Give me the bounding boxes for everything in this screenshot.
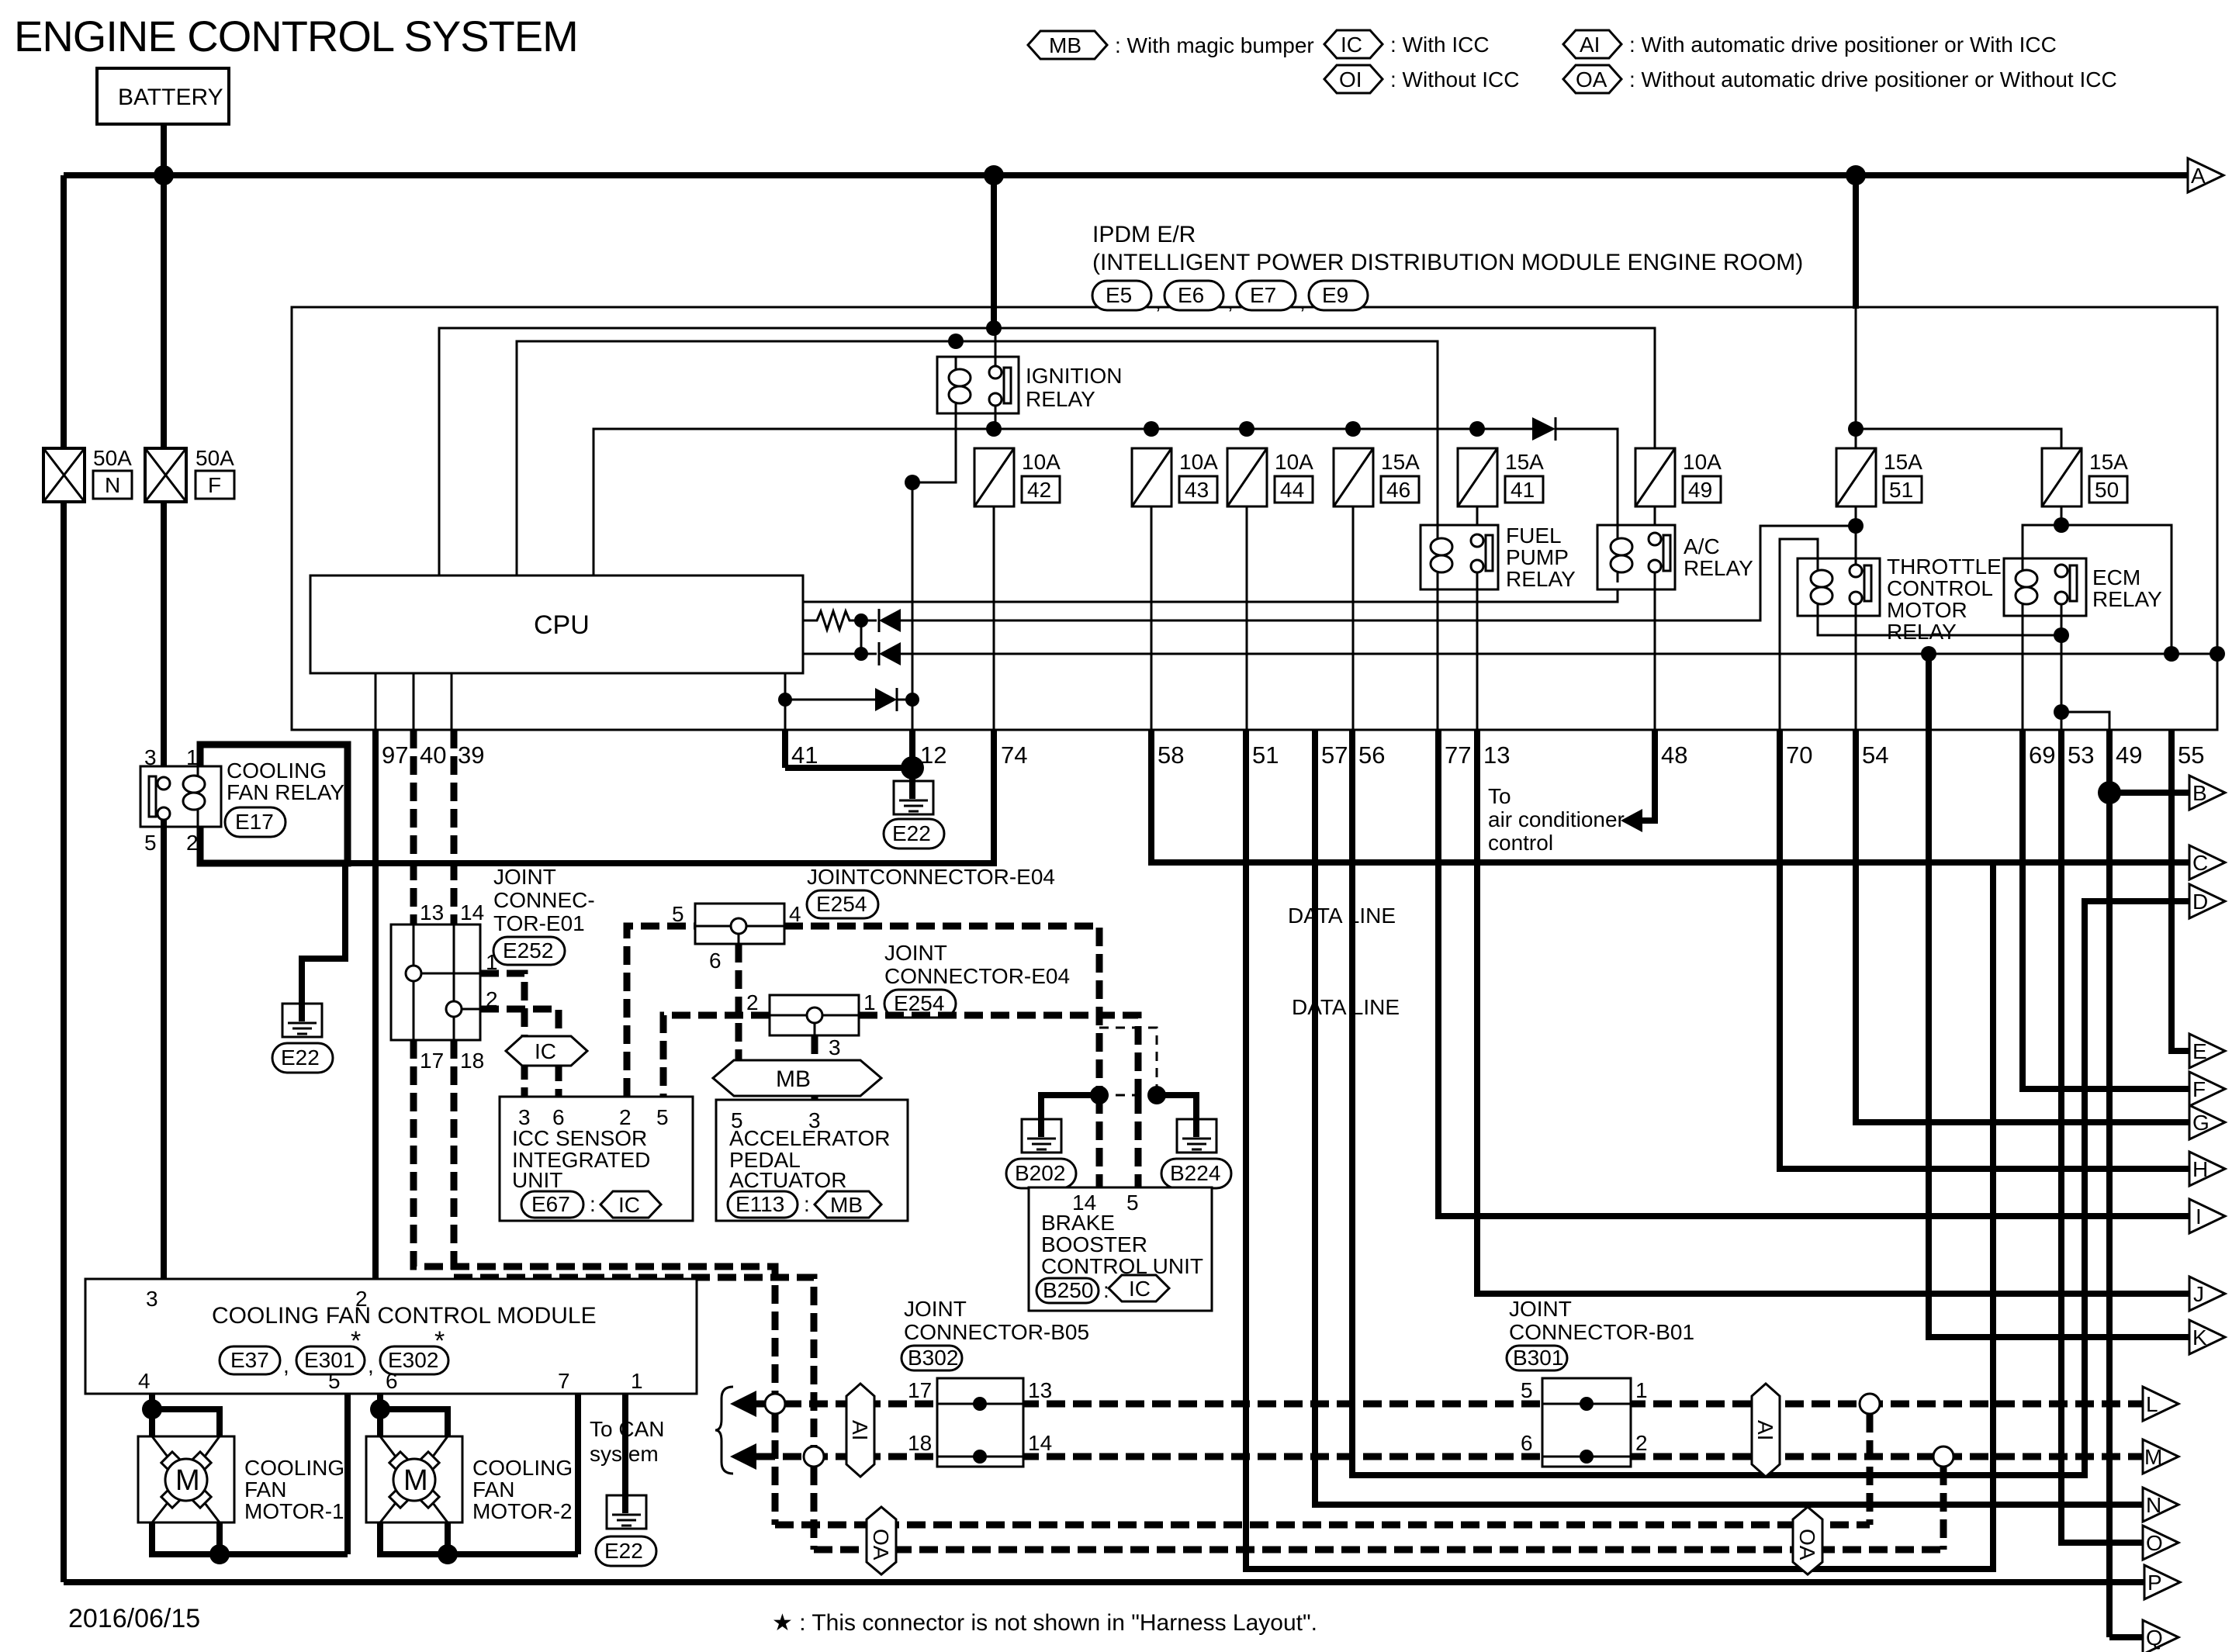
svg-text:O: O bbox=[2146, 1531, 2163, 1555]
diode fuse-rail bbox=[1532, 417, 1556, 441]
joint connector B301 bbox=[1542, 1378, 1631, 1467]
joint connector E252 bbox=[391, 924, 480, 1040]
svg-text:6: 6 bbox=[1521, 1431, 1533, 1455]
wire E17 pin1 stub bbox=[197, 745, 199, 766]
svg-text:,: , bbox=[283, 1353, 289, 1377]
svg-text:C: C bbox=[2192, 851, 2208, 875]
wire pin69 to F arrow bbox=[2023, 730, 2189, 1089]
arrow J bbox=[2189, 1277, 2225, 1311]
ground B224 bbox=[1161, 1119, 1231, 1188]
svg-text:AI: AI bbox=[1580, 33, 1600, 57]
svg-text:41: 41 bbox=[1511, 478, 1535, 502]
hexagon IC option bbox=[506, 1036, 587, 1066]
svg-text:56: 56 bbox=[1358, 741, 1385, 769]
ignition relay bbox=[937, 328, 1122, 413]
svg-text:IC: IC bbox=[1129, 1277, 1151, 1301]
svg-text:,: , bbox=[1227, 289, 1234, 313]
wire ground column bbox=[912, 482, 914, 700]
node CAN L splice right bbox=[1860, 1394, 1880, 1414]
svg-text:46: 46 bbox=[1386, 478, 1410, 502]
svg-text:(INTELLIGENT POWER DISTRIBUTIO: (INTELLIGENT POWER DISTRIBUTION MODULE E… bbox=[1092, 250, 1803, 275]
ground E22 under pin12 bbox=[884, 781, 944, 848]
wire E252 pin17 CAN down bbox=[414, 1040, 775, 1404]
svg-text:E6: E6 bbox=[1178, 283, 1204, 307]
svg-text:MOTOR-2: MOTOR-2 bbox=[472, 1499, 573, 1523]
wire pin49 column bbox=[2106, 730, 2113, 1637]
svg-text:J: J bbox=[2193, 1282, 2204, 1306]
wire CPU pin41 stub bbox=[784, 673, 787, 730]
wire CPU pin39 stub bbox=[451, 673, 453, 730]
wire fuse supply y553 bbox=[593, 429, 1532, 575]
node CAN M splice right bbox=[1933, 1446, 1954, 1467]
svg-text:OA: OA bbox=[1795, 1529, 1819, 1560]
node ECM contact link bbox=[2054, 627, 2069, 643]
fuel pump relay bbox=[1421, 524, 1576, 591]
node ECM contact to pin49 bbox=[2054, 704, 2069, 720]
svg-text:E7: E7 bbox=[1250, 283, 1276, 307]
wire CAN L drop to OA line bbox=[772, 1414, 779, 1525]
arrow F bbox=[2189, 1072, 2225, 1106]
wire CAN L right drop bbox=[1867, 1414, 1874, 1525]
svg-text:B301: B301 bbox=[1513, 1346, 1563, 1370]
wire CPU line2 to fuse51 node bbox=[901, 526, 1856, 620]
svg-text:40: 40 bbox=[420, 741, 446, 769]
node motor2 return join bbox=[438, 1544, 458, 1564]
connector B302 oval bbox=[901, 1346, 962, 1370]
arrow to CAN lower bbox=[730, 1443, 756, 1470]
wire module pin7 bbox=[575, 1394, 581, 1554]
throttle control motor relay bbox=[1798, 555, 2002, 644]
svg-text:FAN RELAY: FAN RELAY bbox=[227, 780, 344, 804]
connector E254 oval lower bbox=[884, 990, 956, 1018]
svg-text:,: , bbox=[1155, 289, 1161, 313]
svg-text:10A: 10A bbox=[1022, 450, 1061, 474]
arrow to CAN upper bbox=[730, 1391, 756, 1417]
svg-text:E113: E113 bbox=[735, 1192, 784, 1216]
svg-text:49: 49 bbox=[2116, 741, 2142, 769]
diode D3 right-pointing bbox=[875, 688, 897, 711]
svg-text:3: 3 bbox=[808, 1108, 821, 1132]
wire OA line upper bbox=[775, 1522, 1870, 1529]
connector E301 bbox=[296, 1326, 365, 1374]
hexagon OA right bbox=[1793, 1507, 1822, 1574]
wire CPU line3 across to pin55 column bbox=[901, 653, 2217, 655]
wire bottom border to P arrow bbox=[64, 1579, 2144, 1585]
svg-text:N: N bbox=[2146, 1493, 2161, 1517]
svg-text:2016/06/15: 2016/06/15 bbox=[68, 1604, 200, 1633]
svg-text:2: 2 bbox=[746, 990, 759, 1014]
wire pin57 to N arrow bbox=[1315, 730, 2143, 1505]
arrow G bbox=[2189, 1105, 2225, 1139]
wire motor1 returns bbox=[152, 1522, 348, 1554]
svg-text:13: 13 bbox=[420, 900, 444, 924]
wire fuel pump coil to pin77 bbox=[1437, 589, 1439, 730]
svg-text:18: 18 bbox=[460, 1049, 484, 1073]
svg-text::: : bbox=[590, 1192, 596, 1216]
wire CAN M right drop bbox=[1940, 1467, 1947, 1550]
wire motor2 returns bbox=[380, 1522, 578, 1554]
wire ECM contact down bbox=[2061, 604, 2063, 730]
hexagon AI left bbox=[846, 1384, 874, 1477]
wire pin58 to C arrow bbox=[1151, 730, 2189, 862]
svg-text:To CAN: To CAN bbox=[590, 1417, 664, 1441]
hexagon AI right bbox=[1752, 1384, 1780, 1477]
svg-text:ENGINE CONTROL SYSTEM: ENGINE CONTROL SYSTEM bbox=[14, 12, 578, 60]
wire diode to A/C relay coil bbox=[1556, 429, 1618, 535]
cooling fan motor 2 bbox=[366, 1436, 573, 1523]
svg-text:E254: E254 bbox=[816, 892, 867, 916]
wire fuse44 out to pin51 bbox=[1246, 506, 1248, 730]
wire fuse51 out to throttle contact bbox=[1855, 506, 1857, 565]
svg-text:15A: 15A bbox=[2089, 450, 2128, 474]
svg-text:E5: E5 bbox=[1106, 283, 1132, 307]
wire Q feed bbox=[2109, 1634, 2143, 1640]
svg-text:MOTOR: MOTOR bbox=[1887, 598, 1967, 622]
connector E37 bbox=[220, 1346, 280, 1374]
svg-text:E22: E22 bbox=[281, 1045, 320, 1070]
joint connector E04 lower bbox=[770, 995, 859, 1035]
svg-text:E9: E9 bbox=[1322, 283, 1348, 307]
wire battery column through fuse F down to cooling fan relay bbox=[161, 175, 167, 448]
arrow D bbox=[2189, 884, 2225, 918]
svg-text:B224: B224 bbox=[1170, 1161, 1220, 1185]
wire A/C contact to pin48 bbox=[1654, 572, 1656, 730]
svg-text:CPU: CPU bbox=[534, 610, 590, 640]
svg-text:15A: 15A bbox=[1381, 450, 1420, 474]
svg-text:FUEL: FUEL bbox=[1506, 524, 1562, 548]
svg-text:To: To bbox=[1488, 784, 1511, 808]
svg-text:97: 97 bbox=[382, 741, 408, 769]
svg-text:74: 74 bbox=[1001, 741, 1027, 769]
wire B224 option dash bbox=[1099, 1028, 1157, 1095]
svg-text:49: 49 bbox=[1688, 478, 1712, 502]
ground E22 of cooling fan relay bbox=[272, 1004, 333, 1073]
joint connector B302 bbox=[937, 1378, 1023, 1467]
svg-text:50A: 50A bbox=[93, 446, 132, 470]
wire data line to brake pin14 bbox=[1096, 1095, 1103, 1187]
ground E22 of module bbox=[596, 1495, 656, 1566]
svg-text:TOR-E01: TOR-E01 bbox=[493, 911, 585, 935]
svg-text:E22: E22 bbox=[892, 821, 931, 845]
wire B224 ground lead bbox=[1157, 1095, 1196, 1137]
connector E252 oval bbox=[493, 937, 565, 965]
node motor2 feed bbox=[370, 1399, 390, 1419]
wire pin70 to H arrow bbox=[1780, 730, 2189, 1169]
svg-text:E254: E254 bbox=[894, 991, 944, 1015]
fuse N 50A bbox=[43, 446, 132, 502]
svg-text:D: D bbox=[2192, 890, 2208, 914]
svg-text:CONNECTOR-B01: CONNECTOR-B01 bbox=[1509, 1320, 1694, 1344]
wire CPU feed y423 bbox=[439, 328, 1655, 575]
wire fuse42 out to pin74 bbox=[993, 506, 995, 730]
wire module pin5 bbox=[344, 1394, 351, 1554]
wire pin53 to O arrow bbox=[2061, 730, 2143, 1543]
svg-text:10A: 10A bbox=[1179, 450, 1218, 474]
wire motor2 feed branch bbox=[380, 1409, 448, 1436]
fuse 50 15A bbox=[2042, 448, 2128, 506]
label To CAN system bbox=[590, 1417, 664, 1466]
node motor1 feed bbox=[142, 1399, 162, 1419]
svg-text:57: 57 bbox=[1321, 741, 1348, 769]
svg-text:RELAY: RELAY bbox=[1887, 620, 1957, 644]
svg-text:MB: MB bbox=[830, 1193, 863, 1217]
arrow P bbox=[2144, 1565, 2180, 1599]
svg-text:COOLING FAN CONTROL MODULE: COOLING FAN CONTROL MODULE bbox=[212, 1303, 597, 1329]
node fuse46 tap bbox=[1345, 421, 1361, 437]
fuse 44 10A bbox=[1227, 448, 1313, 506]
svg-text:69: 69 bbox=[2029, 741, 2055, 769]
svg-text:5: 5 bbox=[144, 831, 157, 855]
fuse 41 15A bbox=[1458, 448, 1544, 506]
svg-text:system: system bbox=[590, 1442, 659, 1466]
wire module pin4 bbox=[149, 1394, 155, 1436]
brace CAN group bbox=[715, 1387, 733, 1474]
svg-text:JOINT: JOINT bbox=[904, 1297, 967, 1321]
svg-text:,: , bbox=[1299, 289, 1306, 313]
svg-text:13: 13 bbox=[1483, 741, 1510, 769]
wire B feed bbox=[2109, 790, 2189, 796]
svg-text:FAN: FAN bbox=[244, 1477, 286, 1502]
node fuse44 tap bbox=[1239, 421, 1254, 437]
arrow O bbox=[2143, 1526, 2178, 1560]
node fuse51 tap bbox=[1848, 421, 1864, 437]
svg-text:10A: 10A bbox=[1275, 450, 1313, 474]
node fuse41 tap bbox=[1469, 421, 1485, 437]
svg-text:5: 5 bbox=[328, 1369, 341, 1393]
svg-text:17: 17 bbox=[908, 1378, 932, 1402]
wire ECM node to pin49 bbox=[2061, 712, 2109, 730]
svg-text:2: 2 bbox=[1635, 1431, 1648, 1455]
svg-text:RELAY: RELAY bbox=[1506, 567, 1576, 591]
IPDM E/R labels bbox=[1092, 222, 1803, 275]
svg-text:53: 53 bbox=[2068, 741, 2094, 769]
svg-text:PUMP: PUMP bbox=[1506, 545, 1569, 569]
svg-text:3: 3 bbox=[144, 745, 157, 769]
svg-text:15A: 15A bbox=[1884, 450, 1922, 474]
svg-text:B202: B202 bbox=[1015, 1161, 1065, 1185]
svg-text:AI: AI bbox=[1753, 1420, 1777, 1440]
svg-text:CONNECTOR-E04: CONNECTOR-E04 bbox=[884, 964, 1070, 988]
arrow C bbox=[2189, 845, 2225, 880]
svg-text:DATA LINE: DATA LINE bbox=[1288, 904, 1396, 928]
resistor R bbox=[812, 611, 855, 630]
wire E17 pin5 to module pin3 bbox=[161, 820, 167, 1279]
battery bbox=[97, 68, 229, 124]
wire CAN M drop to OA line bbox=[811, 1467, 818, 1550]
svg-text:BOOSTER: BOOSTER bbox=[1041, 1232, 1147, 1256]
ECM relay bbox=[2004, 558, 2162, 616]
label E252 title bbox=[493, 865, 595, 935]
svg-text:42: 42 bbox=[1027, 478, 1051, 502]
node diode link bottom bbox=[854, 647, 868, 661]
fuse 43 10A bbox=[1132, 448, 1218, 506]
svg-text:JOINT: JOINT bbox=[884, 941, 947, 965]
svg-text:6: 6 bbox=[709, 949, 722, 973]
node diode row left bbox=[778, 693, 792, 707]
svg-text:M: M bbox=[175, 1464, 200, 1497]
relay symbol E17 bbox=[140, 766, 221, 827]
wire pin51 bottom loop bbox=[1246, 730, 1993, 1569]
wire E252 pin18 CAN down bbox=[454, 1040, 814, 1457]
diode D1 left-pointing bbox=[879, 609, 901, 632]
fuse 51 15A bbox=[1836, 448, 1922, 506]
svg-text:5: 5 bbox=[656, 1105, 669, 1129]
svg-text:51: 51 bbox=[1252, 741, 1279, 769]
svg-text:E17: E17 bbox=[235, 810, 274, 834]
svg-text:6: 6 bbox=[552, 1105, 565, 1129]
wire E04 lower pin3 to accelerator pin3 bbox=[812, 1035, 818, 1100]
svg-text:IC: IC bbox=[618, 1193, 640, 1217]
svg-text:JOINTCONNECTOR-E04: JOINTCONNECTOR-E04 bbox=[807, 865, 1055, 889]
svg-text:4: 4 bbox=[789, 902, 801, 926]
svg-text:14: 14 bbox=[1028, 1431, 1052, 1455]
svg-text:: Without ICC: : Without ICC bbox=[1390, 67, 1519, 92]
svg-text:COOLING: COOLING bbox=[227, 759, 327, 783]
ground B202 bbox=[1006, 1119, 1076, 1188]
connector B301 oval bbox=[1507, 1346, 1567, 1370]
hexagon OA left bbox=[867, 1507, 896, 1574]
svg-text:I: I bbox=[2196, 1204, 2202, 1229]
svg-text:L: L bbox=[2146, 1392, 2158, 1416]
wire throttle contact to pin54 bbox=[1855, 604, 1857, 730]
wire B202 ground lead bbox=[1041, 1095, 1099, 1137]
wire ICC pin2 riser bbox=[627, 926, 695, 1097]
arrow E bbox=[2189, 1034, 2225, 1068]
svg-text:1: 1 bbox=[1635, 1378, 1648, 1402]
svg-text:41: 41 bbox=[791, 741, 818, 769]
svg-text:OA: OA bbox=[1576, 67, 1607, 92]
wire pin97 to module pin2 bbox=[372, 730, 379, 1279]
svg-text:Q: Q bbox=[2146, 1626, 2163, 1650]
wire ECM coil to pin69 bbox=[2022, 616, 2024, 730]
node ignition coil tap bbox=[948, 334, 964, 349]
svg-text:B302: B302 bbox=[908, 1346, 958, 1370]
svg-text:5: 5 bbox=[672, 902, 684, 926]
svg-text:3: 3 bbox=[829, 1035, 841, 1059]
pin numbers row bbox=[382, 741, 2204, 769]
svg-text:E37: E37 bbox=[230, 1348, 269, 1372]
svg-text:THROTTLE: THROTTLE bbox=[1887, 555, 2002, 579]
svg-text:G: G bbox=[2192, 1111, 2210, 1135]
wire pin39 CAN dashed upper bbox=[451, 730, 458, 924]
svg-text:58: 58 bbox=[1158, 741, 1184, 769]
node ground column tap bbox=[905, 475, 920, 490]
svg-text:17: 17 bbox=[420, 1049, 444, 1073]
wire pin41 to pin12 bbox=[785, 765, 912, 771]
arrow N bbox=[2143, 1488, 2178, 1522]
wire ignition contact to fuse rail bbox=[995, 405, 997, 429]
hexagon MB option bbox=[713, 1060, 881, 1096]
wire CPU pin40 stub bbox=[413, 673, 415, 730]
svg-text:air conditioner: air conditioner bbox=[1488, 807, 1625, 831]
svg-text:2: 2 bbox=[619, 1105, 632, 1129]
arrow I bbox=[2189, 1199, 2225, 1233]
node fuse42 tap bbox=[986, 421, 1002, 437]
node pin55 column tap bbox=[2164, 646, 2179, 662]
fuse 42 10A bbox=[974, 448, 1061, 506]
node B202 tap bbox=[1090, 1086, 1109, 1104]
wire ECM coil feed bbox=[2023, 525, 2061, 558]
svg-text:K: K bbox=[2192, 1325, 2207, 1350]
wire motor1 feed branch bbox=[152, 1409, 220, 1436]
node ignition contact tap bbox=[986, 320, 1002, 336]
wire module pin6 bbox=[377, 1394, 383, 1436]
wire pin77 to I arrow bbox=[1438, 730, 2189, 1216]
wire ground column to pin12 bbox=[912, 700, 914, 730]
brake booster control unit bbox=[1029, 1187, 1212, 1311]
svg-text:OI: OI bbox=[1339, 67, 1362, 92]
node fuse51 lower bbox=[1848, 518, 1864, 534]
wire CAN L line bbox=[756, 1401, 2143, 1408]
wire diode link vertical bbox=[860, 620, 863, 654]
wire pin48 to air conditioner bbox=[1642, 730, 1655, 821]
IPDM E/R box bbox=[292, 307, 2217, 730]
wire pin54 to G arrow bbox=[1856, 730, 2189, 1122]
svg-text:A/C: A/C bbox=[1684, 534, 1720, 558]
wire E04 upper pin4 data line bbox=[784, 926, 1099, 1095]
wire E17 pin2 stub bbox=[197, 827, 199, 863]
svg-text:48: 48 bbox=[1661, 741, 1687, 769]
node bus junction x2392 bbox=[1846, 165, 1866, 185]
svg-text:70: 70 bbox=[1786, 741, 1812, 769]
label E04 lower title bbox=[884, 941, 1070, 988]
svg-text:13: 13 bbox=[1028, 1378, 1052, 1402]
node CAN M splice bbox=[804, 1446, 824, 1467]
svg-text:E67: E67 bbox=[531, 1192, 570, 1216]
svg-text:5: 5 bbox=[1521, 1378, 1533, 1402]
wire fuse49 out to A/C contact bbox=[1654, 506, 1656, 534]
wire CAN M line bbox=[756, 1453, 2143, 1460]
wire fuse51 node to fuse50 bbox=[1856, 429, 2061, 449]
legend hexagon IC bbox=[1324, 30, 1490, 58]
svg-text:F: F bbox=[2192, 1077, 2206, 1101]
svg-text:COOLING: COOLING bbox=[472, 1456, 573, 1480]
svg-text:14: 14 bbox=[460, 900, 484, 924]
wire pin74 thick to E17 box bbox=[348, 730, 994, 863]
svg-text:7: 7 bbox=[558, 1369, 570, 1393]
svg-text:*: * bbox=[351, 1326, 361, 1356]
svg-text:ICC SENSOR: ICC SENSOR bbox=[512, 1126, 647, 1150]
node B junction bbox=[2098, 781, 2121, 804]
svg-text:MB: MB bbox=[1049, 33, 1081, 57]
svg-text:★ : This connector is not show: ★ : This connector is not shown in "Harn… bbox=[772, 1610, 1317, 1636]
wire option dash between taps bbox=[1099, 1094, 1157, 1097]
connector E6 bbox=[1164, 281, 1223, 310]
connector E9 bbox=[1309, 281, 1368, 310]
legend hexagon OA bbox=[1563, 65, 2117, 93]
wire fuel pump contact to pin13 bbox=[1476, 572, 1479, 730]
arrow to air conditioner bbox=[1621, 809, 1642, 832]
svg-text:2: 2 bbox=[186, 831, 199, 855]
wire E252 pin2 to ICC pin6 bbox=[480, 1009, 559, 1097]
wire E04 lower pin2 to ICC pin5 bbox=[663, 1015, 770, 1097]
svg-text::: : bbox=[1103, 1278, 1109, 1302]
svg-text:control: control bbox=[1488, 831, 1553, 855]
svg-text:IC: IC bbox=[1341, 33, 1362, 57]
svg-text:5: 5 bbox=[1126, 1191, 1139, 1215]
CPU box bbox=[310, 575, 803, 673]
svg-text:E252: E252 bbox=[503, 938, 553, 963]
svg-text:F: F bbox=[208, 473, 221, 497]
cooling fan relay E17 box bbox=[200, 745, 348, 863]
wire main battery bus bbox=[64, 172, 2188, 178]
cooling fan control module bbox=[85, 1279, 697, 1394]
svg-text:ECM: ECM bbox=[2092, 565, 2140, 589]
wire pin41 thick bbox=[782, 730, 788, 768]
arrow K bbox=[2189, 1320, 2225, 1354]
svg-text:P: P bbox=[2147, 1571, 2162, 1595]
svg-text:,: , bbox=[368, 1353, 374, 1377]
